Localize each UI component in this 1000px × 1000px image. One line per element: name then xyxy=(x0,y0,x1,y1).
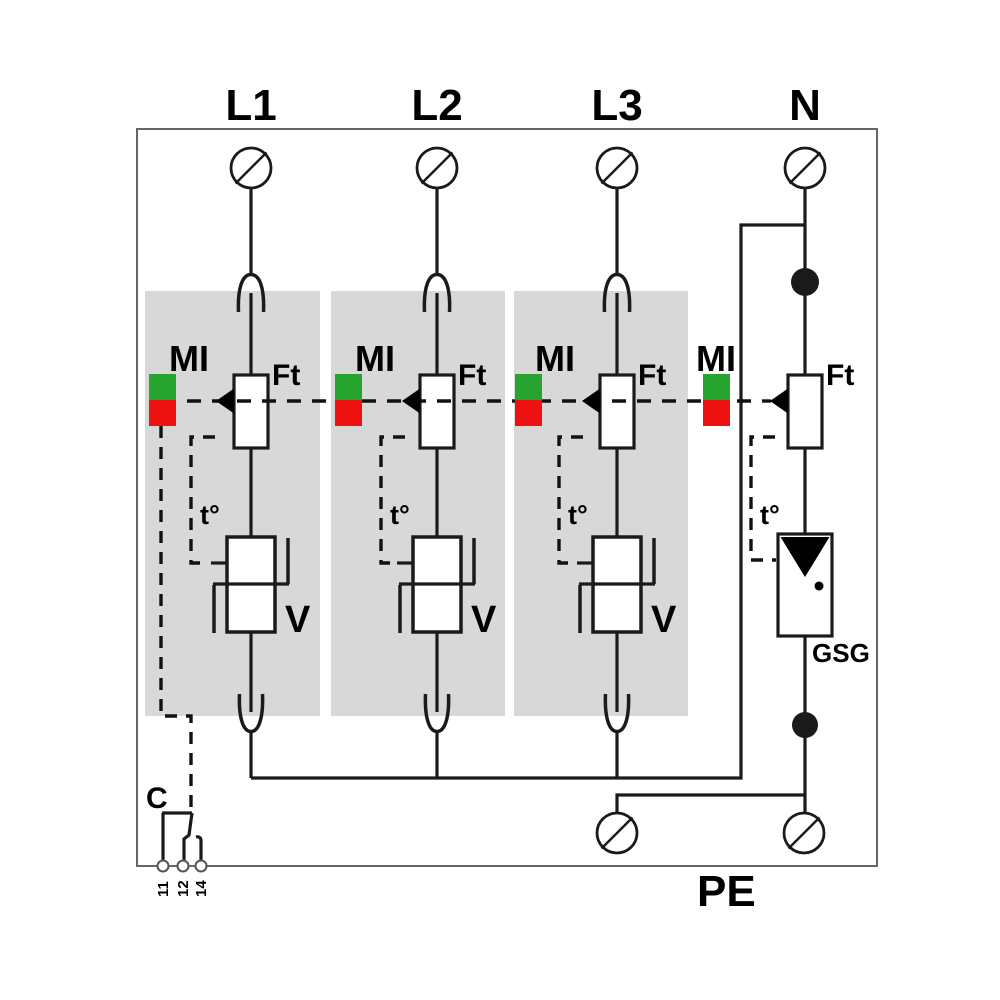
svg-text:Ft: Ft xyxy=(638,359,666,392)
svg-text:MI: MI xyxy=(169,338,209,379)
svg-text:V: V xyxy=(651,599,677,641)
svg-text:GSG: GSG xyxy=(812,638,870,668)
svg-text:MI: MI xyxy=(535,338,575,379)
svg-text:Ft: Ft xyxy=(458,359,486,392)
svg-text:Ft: Ft xyxy=(272,359,300,392)
svg-text:t°: t° xyxy=(568,500,588,530)
svg-text:L2: L2 xyxy=(411,81,462,130)
svg-text:L3: L3 xyxy=(591,81,642,130)
svg-text:12: 12 xyxy=(175,880,192,897)
svg-text:t°: t° xyxy=(760,500,780,530)
svg-text:PE: PE xyxy=(697,867,756,916)
svg-text:C: C xyxy=(146,782,168,815)
svg-text:MI: MI xyxy=(355,338,395,379)
svg-text:MI: MI xyxy=(696,338,736,379)
svg-text:t°: t° xyxy=(390,500,410,530)
svg-text:N: N xyxy=(789,81,821,130)
svg-text:14: 14 xyxy=(193,880,210,897)
svg-text:V: V xyxy=(471,599,497,641)
svg-text:11: 11 xyxy=(155,881,172,897)
svg-text:t°: t° xyxy=(200,500,220,530)
svg-text:V: V xyxy=(285,599,311,641)
svg-text:Ft: Ft xyxy=(826,359,854,392)
svg-text:L1: L1 xyxy=(225,81,276,130)
